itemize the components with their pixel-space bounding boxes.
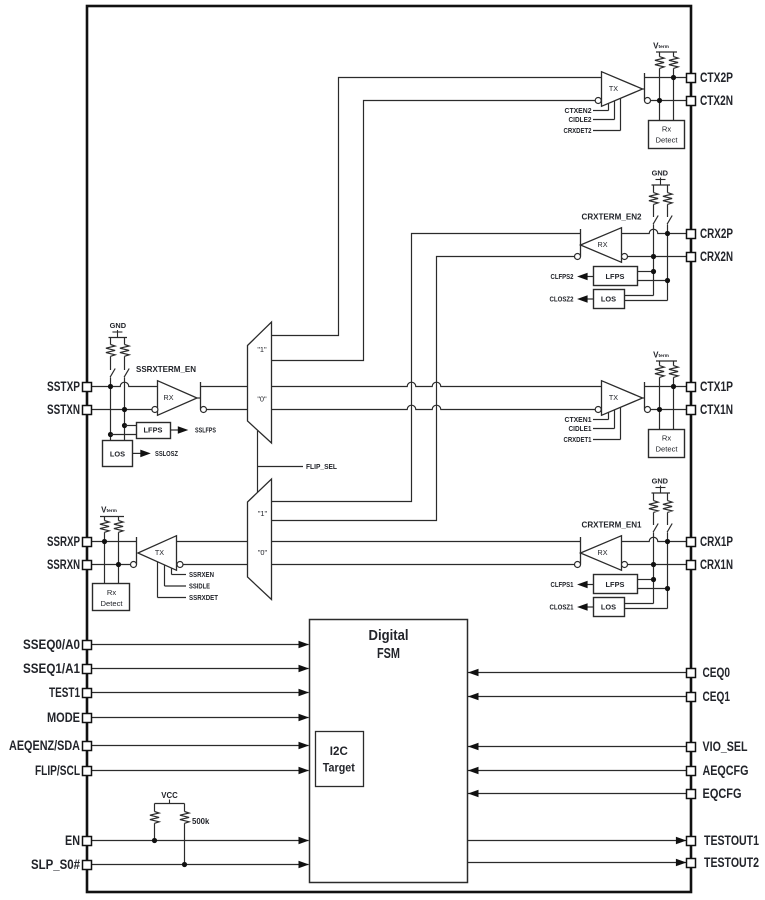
pin TESTOUT2 — [687, 855, 760, 870]
inverting input bubble CTX2 — [595, 98, 601, 104]
svg-text:TESTOUT1: TESTOUT1 — [704, 833, 759, 848]
input bubble CRX1N — [622, 562, 628, 568]
wire route mux1-1 to CTX2 - input — [272, 101, 596, 361]
LOS detector block (SSTX) — [103, 441, 133, 467]
svg-text:TX: TX — [609, 393, 618, 402]
svg-text:VIO_SEL: VIO_SEL — [703, 739, 748, 754]
svg-text:CRXDET1: CRXDET1 — [564, 435, 592, 444]
svg-text:Digital: Digital — [369, 627, 409, 644]
svg-text:CLOSZ2: CLOSZ2 — [550, 295, 574, 304]
op-amp RX receiver U_CRX1 — [581, 536, 622, 571]
wire CRX2N output to mux2 input 1 — [272, 257, 575, 521]
pin CEQ1 — [687, 689, 731, 704]
power VCC pull-up network — [155, 791, 185, 804]
pin SSRXN — [47, 557, 92, 572]
output bar SSRX TX — [136, 537, 138, 565]
wire/pin output TESTOUT2 — [468, 859, 687, 867]
junction LFPS line / left column (CRX1) — [651, 577, 656, 582]
wire CTX2N output rail — [651, 100, 687, 102]
mux MUX1 (flip demux SSTX to CTX1/CTX2) — [248, 322, 272, 443]
svg-text:"0": "0" — [258, 548, 268, 557]
svg-text:CTX1N: CTX1N — [700, 402, 733, 417]
wire CRX2P output to mux2 input 1 — [272, 234, 581, 502]
control CIDLE2 — [569, 101, 615, 124]
wire route mux1-1 to CTX2 + input — [272, 78, 602, 336]
svg-text:GND: GND — [110, 321, 127, 330]
svg-text:SSRXTERM_EN: SSRXTERM_EN — [136, 365, 196, 374]
svg-text:I2C: I2C — [330, 746, 348, 758]
wire CTX1P output rail — [645, 386, 687, 388]
svg-text:"0": "0" — [257, 394, 267, 403]
svg-text:CLFPS1: CLFPS1 — [551, 580, 575, 589]
svg-text:GND: GND — [652, 169, 669, 178]
wire SSTXP pin to RX amp — [91, 382, 157, 386]
wire left column down to LFPS/LOS (CRX2) — [624, 225, 654, 296]
svg-text:LFPS: LFPS — [144, 426, 163, 435]
Rx Detect block (CTX1) — [649, 430, 685, 458]
svg-text:AEQCFG: AEQCFG — [703, 763, 749, 778]
power V_term (CTX1) — [653, 351, 677, 361]
pin MODE — [47, 710, 92, 725]
junction CTX2P / termination — [671, 75, 676, 80]
wire/pin input SSEQ1/A1 — [91, 665, 309, 673]
pin AEQCFG — [687, 763, 749, 778]
svg-text:SSLOSZ: SSLOSZ — [155, 449, 178, 458]
pin CRX1N — [687, 557, 734, 572]
svg-text:CIDLE1: CIDLE1 — [569, 424, 592, 433]
wire CTX1N output rail — [651, 409, 687, 411]
wire SSRXN rail (amp to pin) — [91, 564, 130, 566]
wire mux1-0 to CTX1 + input (hops over cross wires) — [272, 382, 602, 386]
svg-text:CTX2N: CTX2N — [700, 93, 733, 108]
resistor termination R (SSRXP) — [100, 517, 109, 584]
wire left column down to LFPS/LOS (CRX1) — [624, 533, 654, 604]
pin VIO_SEL — [687, 739, 748, 754]
control SSRXDET — [158, 562, 219, 602]
svg-text:FSM: FSM — [377, 645, 400, 662]
junction CRX2N / left column — [651, 254, 656, 259]
pin FLIP/SCL — [35, 763, 92, 778]
wire right column down to LFPS/LOS (CRX2) — [624, 225, 668, 301]
svg-text:"1": "1" — [257, 345, 267, 354]
wire LFPS inputs (CRX2) — [638, 272, 668, 281]
svg-text:EQCFG: EQCFG — [703, 786, 742, 801]
signal CLFPS1 output arrow — [551, 580, 594, 589]
svg-text:Detect: Detect — [656, 444, 679, 453]
junction SSTXN / right column — [122, 407, 127, 412]
pin EQCFG — [687, 786, 742, 801]
wire mux2 out to SSRX TX - input — [183, 564, 248, 566]
svg-text:CEQ1: CEQ1 — [703, 689, 731, 704]
Rx Detect block (SSRX) — [93, 584, 130, 611]
junction LFPS line / right column (CRX2) — [665, 278, 670, 283]
svg-text:SLP_S0#: SLP_S0# — [31, 857, 80, 872]
op-amp TX driver U_CTX1 — [602, 381, 643, 416]
op-amp RX receiver U_SSTX — [158, 381, 198, 416]
resistor termination R (CRX2P side) — [663, 185, 672, 217]
op-amp RX receiver U_CRX2 — [581, 228, 622, 263]
svg-text:CTXEN1: CTXEN1 — [565, 415, 592, 424]
svg-text:LOS: LOS — [601, 603, 616, 612]
wire CRX1N output to mux2 input 0 — [272, 564, 575, 566]
svg-text:CTX1P: CTX1P — [700, 379, 733, 394]
svg-text:Target: Target — [323, 763, 355, 775]
wire right column down to LFPS/LOS (CRX1) — [624, 533, 668, 609]
resistor termination R (SSTXN side) — [120, 338, 129, 371]
svg-text:MODE: MODE — [47, 710, 80, 725]
control CTXEN1 — [565, 412, 609, 424]
svg-text:CRX1N: CRX1N — [700, 557, 733, 572]
junction LFPS upper line (SSTX) — [122, 423, 127, 428]
wire/pin input TEST1 — [91, 689, 309, 697]
resistor termination R (CRX1P side) — [663, 493, 672, 525]
chip boundary (top-level block outline) — [87, 6, 691, 892]
input bubble SSTXN — [152, 407, 158, 413]
svg-text:SSRXP: SSRXP — [47, 534, 80, 549]
power V_term (CTX2) — [653, 42, 677, 52]
svg-text:TEST1: TEST1 — [49, 685, 80, 700]
LFPS detector block (CRX1) — [594, 575, 638, 594]
pin CTX1N — [687, 402, 734, 417]
svg-text:CLOSZ1: CLOSZ1 — [550, 603, 575, 612]
control SSRXEN — [172, 568, 215, 579]
pin SSTXN — [47, 402, 92, 417]
svg-text:LFPS: LFPS — [606, 272, 625, 281]
junction SSRXP / termination — [102, 539, 107, 544]
wire LFPS inputs (SSTX) — [111, 426, 137, 435]
control CRXDET1 — [564, 407, 621, 444]
wire/pin input SLP_S0# — [91, 861, 309, 869]
svg-text:Rx: Rx — [662, 125, 671, 134]
junction CRX1P / right column — [665, 539, 670, 544]
wire mux2 out to SSRX TX + input — [177, 541, 248, 543]
junction CRX2P / right column — [665, 231, 670, 236]
svg-text:CRX2N: CRX2N — [700, 249, 733, 264]
svg-text:SSRXEN: SSRXEN — [189, 570, 214, 579]
wire/pin input EQCFG — [468, 790, 687, 798]
svg-text:RX: RX — [598, 240, 608, 249]
svg-text:LOS: LOS — [110, 450, 125, 459]
resistor termination R (CRX2N side) — [649, 185, 658, 217]
control CIDLE1 — [569, 410, 615, 433]
svg-text:GND: GND — [652, 477, 669, 486]
wire/pin input FLIP/SCL — [91, 767, 309, 775]
control CRXDET2 — [564, 98, 621, 135]
svg-text:SSRXDET: SSRXDET — [189, 593, 219, 602]
wire SSTXN pin to RX amp — [91, 409, 152, 411]
svg-text:EN: EN — [65, 833, 80, 848]
wire/pin input EN — [91, 837, 309, 845]
svg-text:SSTXN: SSTXN — [47, 402, 80, 417]
pin CTX2P — [687, 70, 734, 85]
svg-text:CRX2P: CRX2P — [700, 226, 733, 241]
svg-text:SSTXP: SSTXP — [47, 379, 80, 394]
switch CRXTERM (CRX2 left) — [653, 216, 658, 225]
svg-text:CRX1P: CRX1P — [700, 534, 733, 549]
svg-text:SSEQ0/A0: SSEQ0/A0 — [23, 637, 80, 652]
output bubble CTX2N — [645, 98, 651, 104]
pin TESTOUT1 — [687, 833, 760, 848]
svg-text:SSEQ1/A1: SSEQ1/A1 — [23, 661, 80, 676]
block I2C Target — [316, 732, 364, 787]
svg-text:Vterm: Vterm — [653, 351, 669, 360]
svg-text:VCC: VCC — [161, 791, 178, 800]
output bar CTX2 — [644, 73, 646, 101]
pin SSEQ1/A1 — [23, 661, 92, 676]
output bubble SSRXN — [131, 562, 137, 568]
svg-text:CTXEN2: CTXEN2 — [565, 106, 592, 115]
resistor termination R (CTX1N) — [669, 361, 678, 429]
svg-text:CRXTERM_EN1: CRXTERM_EN1 — [582, 521, 642, 530]
output bar CTX1 — [644, 382, 646, 410]
svg-text:"1": "1" — [258, 509, 268, 518]
svg-text:Rx: Rx — [107, 588, 116, 597]
resistor termination R (SSRXN) — [114, 517, 123, 584]
wire CRX1N rail (pin to amp) — [628, 564, 687, 566]
wire CRX2P rail (pin to amp, hop over left column) — [622, 229, 687, 233]
mux MUX2 (flip mux CRX1/CRX2 to SSRX) — [248, 479, 272, 600]
input bubble CRX2N — [622, 254, 628, 260]
resistor pull-up 500k (EN) — [150, 804, 159, 841]
svg-text:CIDLE2: CIDLE2 — [569, 115, 592, 124]
wire CRX1P rail (pin to amp, hop over left column) — [622, 537, 687, 541]
control SSIDLE — [165, 565, 211, 591]
pin CTX1P — [687, 379, 734, 394]
wire/pin input MODE — [91, 714, 309, 722]
LOS detector block (CRX1) — [594, 598, 625, 617]
junction CTX1N / termination — [657, 407, 662, 412]
wire LFPS inputs (CRX1) — [638, 580, 668, 589]
svg-text:SSRXN: SSRXN — [47, 557, 80, 572]
op-amp TX driver U_CTX2 — [602, 72, 643, 107]
resistor termination R (SSTXP side) — [106, 338, 115, 371]
wire CRX1P output to mux2 input 0 — [272, 541, 581, 543]
pin SSRXP — [47, 534, 92, 549]
svg-text:Detect: Detect — [656, 135, 679, 144]
junction SLP_S0# / pull-up — [182, 862, 187, 867]
Rx Detect block (CTX2) — [649, 121, 685, 149]
resistor termination R (CTX2P) — [655, 52, 664, 120]
junction CTX1P / termination — [671, 384, 676, 389]
wire CRX2N rail (pin to amp) — [628, 256, 687, 258]
switch CRXTERM (CRX2 right) — [667, 216, 672, 225]
signal CLFPS2 output arrow — [551, 272, 594, 281]
op-amp TX driver U_SSRX — [138, 536, 177, 571]
svg-text:CLFPS2: CLFPS2 — [551, 272, 574, 281]
svg-text:Vterm: Vterm — [101, 506, 117, 515]
LFPS detector block (SSTX) — [137, 423, 171, 439]
svg-text:TX: TX — [155, 548, 164, 557]
junction EN / pull-up — [152, 838, 157, 843]
pin SSEQ0/A0 — [23, 637, 92, 652]
wire/pin input AEQENZ/SDA — [91, 742, 309, 750]
svg-text:Rx: Rx — [662, 434, 671, 443]
svg-text:TESTOUT2: TESTOUT2 — [704, 855, 759, 870]
ground GND (SSTX termination) — [109, 321, 128, 337]
svg-text:RX: RX — [164, 393, 174, 402]
wire CTX2P output rail — [645, 77, 687, 79]
wire SSTX RX -out to mux1 — [207, 409, 248, 411]
junction CRX1N / left column — [651, 562, 656, 567]
wire/pin input VIO_SEL — [468, 743, 687, 751]
output bar CRX2 — [580, 229, 582, 257]
pin SSTXP — [47, 379, 92, 394]
LOS detector block (CRX2) — [594, 290, 625, 309]
wire FLIP_SEL select line — [258, 431, 304, 492]
switch CRXTERM (CRX1 right) — [667, 524, 672, 533]
ground GND (CRX2) — [652, 169, 671, 185]
wire left column down to LOS (SSTX) — [110, 378, 112, 442]
pin SLP_S0# — [31, 857, 92, 872]
junction CTX2N / termination — [657, 98, 662, 103]
switch SSRXTERM (right) — [124, 369, 129, 378]
wire SSTX RX +out to mux1 — [201, 386, 248, 388]
wire/pin input AEQCFG — [468, 767, 687, 775]
svg-text:SSLFPS: SSLFPS — [195, 426, 216, 435]
svg-text:CEQ0: CEQ0 — [703, 665, 731, 680]
svg-text:TX: TX — [609, 84, 618, 93]
switch SSRXTERM (left) — [110, 369, 115, 378]
wire mux1-0 to CTX1 - input (hops over cross wires) — [272, 405, 596, 409]
svg-text:AEQENZ/SDA: AEQENZ/SDA — [9, 738, 80, 753]
wire/pin input CEQ0 — [468, 669, 687, 677]
svg-text:FLIP_SEL: FLIP_SEL — [306, 462, 337, 471]
resistor termination R (CTX1P) — [655, 361, 664, 429]
svg-text:LOS: LOS — [601, 295, 616, 304]
output bubble CRX1N — [575, 562, 581, 568]
svg-text:LFPS: LFPS — [606, 580, 625, 589]
wire SSRXP rail (amp to pin) — [91, 541, 136, 543]
junction SSRXN / termination — [116, 562, 121, 567]
output bar SSTX RX — [197, 382, 201, 410]
LFPS detector block (CRX2) — [594, 267, 638, 286]
power V_term (SSRX) — [100, 506, 124, 517]
resistor pull-up 500k (SLP_S0#) — [180, 804, 189, 865]
pin CRX2N — [687, 249, 734, 264]
pin CRX2P — [687, 226, 734, 241]
svg-text:CRXTERM_EN2: CRXTERM_EN2 — [582, 213, 642, 222]
svg-text:CTX2P: CTX2P — [700, 70, 733, 85]
junction LFPS line / left column (CRX2) — [651, 269, 656, 274]
junction LFPS lower line (SSTX) — [108, 432, 113, 437]
output bubble CTX1N — [645, 407, 651, 413]
wire right column down to LOS (SSTX) — [124, 378, 126, 442]
input bubble SSRX TX — [177, 562, 183, 568]
svg-text:RX: RX — [598, 548, 608, 557]
pin CEQ0 — [687, 665, 731, 680]
pin AEQENZ/SDA — [9, 738, 92, 753]
svg-text:SSIDLE: SSIDLE — [189, 582, 210, 591]
svg-text:Vterm: Vterm — [653, 42, 669, 51]
wire/pin input SSEQ0/A0 — [91, 641, 309, 649]
control CTXEN2 — [565, 103, 609, 115]
svg-text:Detect: Detect — [101, 599, 124, 608]
signal SSLFPS output arrow — [170, 426, 216, 435]
output bar CRX1 — [580, 537, 582, 565]
switch CRXTERM (CRX1 left) — [653, 524, 658, 533]
wire/pin output TESTOUT1 — [468, 837, 687, 845]
resistor termination R (CRX1N side) — [649, 493, 658, 525]
pin CRX1P — [687, 534, 734, 549]
svg-text:CRXDET2: CRXDET2 — [564, 126, 592, 135]
inverting input bubble CTX1 — [595, 407, 601, 413]
pin CTX2N — [687, 93, 734, 108]
block Digital FSM — [310, 620, 468, 883]
svg-text:500k: 500k — [192, 817, 210, 826]
ground GND (CRX1) — [652, 477, 671, 493]
output bubble SSTX RX — [201, 407, 207, 413]
output bubble CRX2N — [575, 254, 581, 260]
wire/pin input CEQ1 — [468, 693, 687, 701]
signal SSLOSZ output arrow — [133, 449, 178, 458]
junction SSTXP / left column — [108, 384, 113, 389]
pin TEST1 — [49, 685, 92, 700]
svg-text:FLIP/SCL: FLIP/SCL — [35, 763, 80, 778]
pin EN — [65, 833, 92, 848]
signal CLOSZ2 output arrow — [550, 295, 594, 304]
junction LFPS line / right column (CRX1) — [665, 586, 670, 591]
resistor termination R (CTX2N) — [669, 52, 678, 120]
signal CLOSZ1 output arrow — [550, 603, 594, 612]
